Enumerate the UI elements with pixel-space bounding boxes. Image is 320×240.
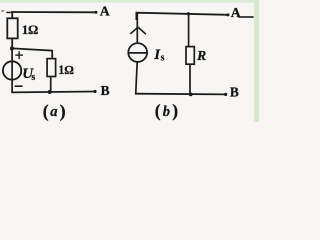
wire: middle wire to R2 top <box>12 48 52 58</box>
node B (a) terminal dot <box>93 90 96 93</box>
voltage source U_s plus sign <box>15 51 23 59</box>
wire: bottom wire to terminal B <box>135 93 226 96</box>
node T junction dot bottom <box>189 93 193 97</box>
resistor R box <box>186 47 194 65</box>
svg-text:R: R <box>196 48 206 63</box>
node T junction dot top <box>187 12 190 15</box>
svg-text:A: A <box>231 5 241 20</box>
svg-text:1Ω: 1Ω <box>22 23 38 37</box>
svg-text:B: B <box>101 83 110 98</box>
svg-text:(: ( <box>155 101 161 121</box>
current source arrow <box>130 27 146 34</box>
svg-text:1Ω: 1Ω <box>58 63 73 77</box>
svg-text:): ) <box>172 101 178 121</box>
node junction dot on middle wire <box>10 46 14 50</box>
node junction dot on bottom wire <box>48 90 52 94</box>
wire: top wire fragments at left <box>1 10 4 11</box>
svg-text:): ) <box>60 101 66 121</box>
current source I_s circle <box>128 43 147 62</box>
svg-text:s: s <box>161 53 165 64</box>
node A (b) terminal dot <box>227 13 230 16</box>
wire: current source bottom lead and bottom corner <box>136 62 138 94</box>
svg-text:a: a <box>50 104 57 120</box>
top green band <box>0 0 259 3</box>
svg-text:A: A <box>100 3 110 18</box>
wire: R1 bottom lead to junction <box>11 39 13 49</box>
right green band <box>254 0 259 122</box>
wire: R bottom lead <box>189 64 191 94</box>
wire: top wire to terminal A <box>11 11 96 13</box>
wire: current source top lead <box>136 13 138 43</box>
current source horizontal bar <box>128 52 147 54</box>
wire: top wire to terminal A <box>136 13 228 20</box>
svg-text:s: s <box>31 72 35 83</box>
node A (a) terminal dot <box>95 11 98 14</box>
resistor R2 1ohm box <box>47 59 56 77</box>
resistor R1 1ohm box <box>7 18 17 38</box>
wire: stub right of A <box>239 16 254 18</box>
paper background <box>0 0 259 122</box>
wire: bottom wire to terminal B <box>11 91 95 94</box>
wire: left branch from top wire to R1 <box>11 12 13 19</box>
svg-text:(: ( <box>43 101 49 121</box>
svg-text:b: b <box>163 104 170 120</box>
node B (b) terminal dot <box>224 93 227 96</box>
voltage source minus sign <box>15 85 23 87</box>
wire: R top lead <box>188 14 190 47</box>
svg-text:B: B <box>230 84 239 99</box>
wire: lead through voltage source <box>11 49 13 93</box>
voltage source U_s circle <box>3 61 21 79</box>
wire: R2 bottom lead <box>50 77 52 93</box>
